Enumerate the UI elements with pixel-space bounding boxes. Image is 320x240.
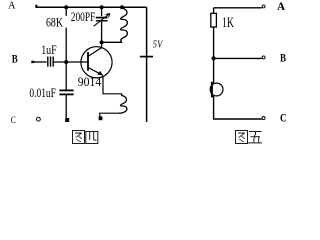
svg-text:0.01uF: 0.01uF	[29, 86, 56, 100]
node junction B figure5	[212, 56, 216, 60]
caption 图五 (Figure 5) pixel strokes	[235, 130, 262, 144]
inductor L emitter coil	[119, 94, 127, 113]
node junction top of variable capacitor	[100, 5, 104, 9]
transistor Q1 base bar	[87, 52, 89, 71]
capacitor C 0.01uF lead bottom	[65, 95, 67, 118]
wire coil bottom to node	[100, 113, 119, 117]
图 glyph	[72, 130, 85, 144]
wire left rail figure5 top	[213, 8, 215, 14]
四 glyph	[85, 131, 98, 144]
wire middle figure5	[214, 57, 262, 59]
wire left rail figure5 middle	[213, 27, 215, 83]
capacitor C 0.01uF plates	[59, 89, 73, 91]
transistor Q1 collector	[88, 42, 102, 56]
svg-text:1K: 1K	[222, 15, 234, 31]
wire B to capacitor	[34, 61, 47, 63]
wire top figure5	[214, 7, 262, 9]
wire emitter down	[103, 76, 122, 94]
caption 图四 (Figure 4) pixel strokes	[72, 130, 98, 144]
battery 5V bar	[140, 56, 153, 58]
inductor L tank coil	[121, 8, 128, 42]
wire right rail figure4	[146, 7, 148, 122]
transistor Q1 emitter with arrow	[88, 67, 103, 75]
wire capacitor to base node	[54, 61, 88, 63]
node emitter return dot	[99, 116, 103, 120]
svg-text:A: A	[8, 0, 16, 11]
svg-text:1uF: 1uF	[41, 43, 57, 57]
microphone BM circle	[210, 83, 223, 96]
wire top rail figure4	[37, 6, 147, 8]
variable capacitor C 200PF	[94, 7, 110, 42]
transistor Q1 9014 circle	[81, 47, 112, 78]
wire A terminal tick	[35, 5, 37, 8]
svg-text:200PF: 200PF	[71, 10, 96, 24]
capacitor C 0.01uF lead top	[65, 62, 67, 90]
terminal B figure5 open circle	[262, 56, 265, 59]
wire left rail figure5 bottom	[214, 96, 262, 119]
node tank bottom junction	[100, 40, 104, 44]
terminal open circle near C	[37, 117, 41, 121]
svg-text:C: C	[280, 112, 287, 124]
node junction top of tank coil	[120, 5, 124, 9]
svg-text:B: B	[280, 52, 286, 64]
svg-text:5V: 5V	[153, 39, 164, 50]
node junction top of R 68K	[64, 5, 68, 9]
svg-text:9014: 9014	[78, 74, 102, 89]
五 glyph	[248, 131, 263, 143]
capacitor C 1uF	[47, 57, 49, 67]
resistor R 68K lead bottom	[65, 28, 67, 62]
svg-text:C: C	[11, 116, 16, 126]
terminal C figure5 open circle	[262, 117, 265, 120]
svg-text:A: A	[277, 1, 286, 13]
svg-text:68K: 68K	[46, 15, 63, 29]
terminal A figure5 open circle	[262, 5, 265, 8]
resistor R 68K lead top	[65, 7, 67, 16]
wire tank bottom	[102, 41, 122, 43]
图 glyph	[235, 130, 248, 144]
microphone bar	[211, 82, 213, 98]
wire B terminal tick	[31, 61, 34, 63]
node base junction	[64, 60, 68, 64]
resistor R 1K box	[211, 13, 217, 27]
svg-text:B: B	[12, 53, 18, 65]
node bottom of 0.01uF	[65, 118, 69, 122]
